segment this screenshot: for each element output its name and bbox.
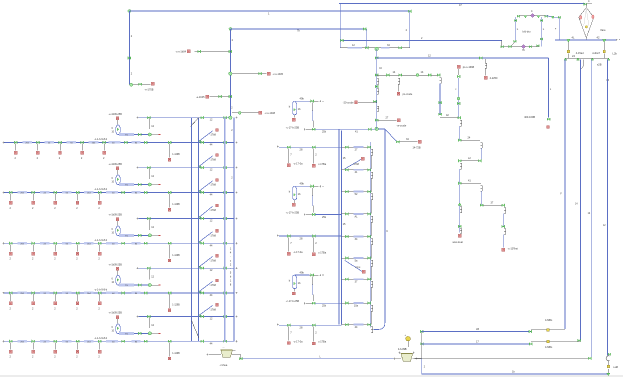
svg-text:4-15ad: 4-15ad <box>576 52 584 55</box>
mid line unit 2 load 1 <box>287 235 290 238</box>
svg-text:25k: 25k <box>322 216 327 219</box>
svg-text:4L: 4L <box>572 35 575 39</box>
svg-text:44: 44 <box>210 294 213 297</box>
ladder rung y=213.9 <box>341 213 370 215</box>
bleed load at y=205.5 <box>216 204 219 207</box>
riser pipe B x=198.5 <box>198 118 200 342</box>
bleed load at y=280.5 <box>216 279 219 282</box>
svg-text:1-129B: 1-129B <box>172 353 180 355</box>
svg-text:5a: 5a <box>355 259 358 262</box>
svg-text:2: 2 <box>59 157 61 160</box>
svg-text:2: 2 <box>103 157 105 160</box>
svg-text:2: 2 <box>421 37 423 40</box>
wire main riser x=230.4 <box>229 29 231 118</box>
svg-text:44: 44 <box>210 342 213 345</box>
floor 1 pump discharge line <box>118 134 150 136</box>
wire zigzag rung y=117.8 <box>440 117 459 119</box>
svg-text:41: 41 <box>355 131 358 134</box>
floor 5 pump discharge line <box>118 332 150 334</box>
svg-text:-c-17-0a: -c-17-0a <box>293 162 303 165</box>
ladder left pipe x=338.9 <box>338 129 340 324</box>
b/d drum top rail <box>518 15 546 17</box>
svg-text:47: 47 <box>459 4 462 7</box>
svg-text:7: 7 <box>290 241 292 245</box>
collector pipe x=421.6 <box>421 332 423 359</box>
svg-text:-17b8: -17b8 <box>353 163 360 166</box>
bleed diagonal at y=155.0 <box>199 156 212 166</box>
node y=117.6 <box>229 116 232 119</box>
mid line unit 1 load 1 <box>287 146 290 149</box>
floor 3 riser-side valves <box>168 242 171 245</box>
svg-text:15: 15 <box>343 156 346 160</box>
b/d drum left pipe <box>515 17 517 42</box>
svg-text:41: 41 <box>355 171 358 174</box>
load c-10Test <box>502 248 505 251</box>
floor 2 riser-side valves <box>168 191 171 194</box>
flare rail y=39.9 <box>555 39 616 41</box>
svg-text:2: 2 <box>315 152 317 156</box>
wire kite stem <box>585 38 587 40</box>
svg-text:7%: 7% <box>125 135 128 137</box>
wire floor 4 main header y=292.9 <box>4 292 234 294</box>
svg-text:cutbaT: cutbaT <box>592 52 600 55</box>
svg-text:52: 52 <box>355 193 358 196</box>
riser top diagonal <box>191 118 199 127</box>
svg-text:44: 44 <box>210 193 213 196</box>
svg-text:37: 37 <box>491 202 494 205</box>
svg-text:2: 2 <box>232 39 234 42</box>
node main riser top <box>229 27 232 30</box>
rail 2 y=58.4 <box>565 57 608 59</box>
floor 1 consumer valves and loads <box>14 141 17 144</box>
bleed diagonal at y=130.0 <box>199 131 212 141</box>
mid loop unit 2 load <box>294 200 296 203</box>
svg-text:12: 12 <box>151 275 154 278</box>
wire floor 5 main header y=341.3 <box>4 340 234 342</box>
basin 2 pilot <box>406 336 411 341</box>
svg-text:6: 6 <box>112 327 114 329</box>
ladder rung y=279.2 <box>341 278 370 280</box>
svg-text:2: 2 <box>455 89 457 91</box>
svg-text:2: 2 <box>54 207 56 210</box>
valve top header end <box>408 10 411 13</box>
mid line unit 3 load 1 <box>287 324 290 327</box>
svg-text:-20-crude: -20-crude <box>343 102 354 105</box>
ladder rung y=236.5 <box>341 236 370 238</box>
svg-text:1: 1 <box>230 280 232 283</box>
window border bottom <box>0 375 623 377</box>
ladder rung y=169.8 <box>341 169 370 171</box>
svg-text:L6: L6 <box>607 80 610 82</box>
svg-text:49b: 49b <box>300 182 305 186</box>
flare kite <box>579 8 594 38</box>
svg-text:12: 12 <box>210 220 213 223</box>
svg-text:-17b8: -17b8 <box>210 159 217 162</box>
svg-text:-: - <box>230 256 231 259</box>
svg-text:1: 1 <box>230 248 232 251</box>
wax column x=459.7 <box>459 185 461 233</box>
floor 1 riser-side valves <box>168 141 171 144</box>
svg-text:7b: 7b <box>522 48 525 52</box>
ladder rung y=147.1 <box>341 146 370 148</box>
svg-text:28: 28 <box>300 236 303 240</box>
svg-text:2: 2 <box>424 366 426 368</box>
wire drop x=409.8 <box>409 11 411 48</box>
svg-text:1-129B: 1-129B <box>172 204 180 206</box>
svg-text:-17b8: -17b8 <box>210 184 217 187</box>
svg-text:-17b8: -17b8 <box>210 134 217 137</box>
svg-text:1-129B: 1-129B <box>172 154 180 156</box>
wire top-most header y=3.5 <box>339 3 585 5</box>
svg-text:14: 14 <box>575 204 578 206</box>
riser bottom diagonal <box>192 321 199 338</box>
svg-text:+: + <box>405 334 407 337</box>
svg-text:L: L <box>543 27 545 31</box>
svg-text:s2B: s2B <box>597 62 602 66</box>
mid line unit 2 load 2 <box>312 235 315 238</box>
rail y=343.9 <box>422 343 530 345</box>
svg-text:1b: 1b <box>298 281 301 285</box>
mid loop unit 3 drop to ladder <box>311 277 313 285</box>
svg-text:wax-treat: wax-treat <box>453 241 464 244</box>
svg-text:c: c <box>230 260 232 263</box>
wire zigzag v1 x=440 <box>439 84 441 115</box>
bleed diagonal at y=280.5 <box>199 281 212 291</box>
svg-text:-c-1-b-9-8-b: -c-1-b-9-8-b <box>94 138 108 141</box>
svg-text:12: 12 <box>428 54 431 57</box>
svg-text:1b: 1b <box>512 370 515 373</box>
b/d drum bottom rail <box>502 46 539 48</box>
wire hot riser x=376.6 <box>376 49 378 129</box>
wire drop x=340.3 <box>339 4 341 48</box>
downcomer x=580.4 <box>582 59 584 66</box>
svg-text:6: 6 <box>112 229 114 231</box>
wire header y=58 to right column <box>377 57 549 59</box>
mid loop unit 3 load <box>294 289 296 292</box>
svg-text:-c-1-b-9-8-b: -c-1-b-9-8-b <box>94 188 108 191</box>
svg-text:4-MBs: 4-MBs <box>545 319 553 322</box>
svg-text:-c-s-1b04: -c-s-1b04 <box>175 50 186 53</box>
svg-text:1: 1 <box>268 11 270 15</box>
rail y=343.9 letdown <box>531 341 580 343</box>
ladder right pipe x=370.7 <box>370 142 372 328</box>
mid line unit 1 load 2 <box>312 146 315 149</box>
svg-text:-c-1-b-9-8-b: -c-1-b-9-8-b <box>94 337 108 340</box>
svg-text:2: 2 <box>98 307 100 310</box>
svg-text:27: 27 <box>355 149 358 152</box>
basin 2 <box>401 354 413 362</box>
svg-text:42: 42 <box>597 35 600 39</box>
svg-text:2: 2 <box>98 207 100 210</box>
svg-text:27: 27 <box>386 116 389 119</box>
svg-text:12: 12 <box>210 269 213 272</box>
svg-text:2: 2 <box>315 330 317 334</box>
svg-text:ps-s-16bB: ps-s-16bB <box>463 66 475 69</box>
bleed load at y=180.0 <box>216 179 219 182</box>
floor 5 tie bar to riser <box>139 316 234 318</box>
downcomer x=607.5 <box>607 60 609 356</box>
valve top header right end <box>584 3 587 6</box>
purple valve top <box>531 14 535 18</box>
downcomer x=564.9 <box>564 60 566 330</box>
branch to load w-crude <box>375 119 378 122</box>
downcomer x=591.2 <box>590 60 592 358</box>
mid line unit 3 inlet <box>277 323 279 325</box>
svg-text:L: L <box>550 89 552 91</box>
svg-text:12: 12 <box>151 125 154 128</box>
svg-text:1b: 1b <box>298 192 301 196</box>
floor 1 tie bar to riser <box>139 117 231 119</box>
svg-text:-e-1b09-25B: -e-1b09-25B <box>109 263 123 266</box>
wire second header drop x=366.8 <box>363 28 366 31</box>
drop to load 4-2250 <box>485 59 487 63</box>
svg-text:10: 10 <box>112 181 115 183</box>
svg-text:-w-crude: -w-crude <box>397 125 407 128</box>
wire collector y=47.8 <box>340 47 410 49</box>
wire floor5 to basin <box>207 353 209 355</box>
svg-text:2: 2 <box>406 29 408 32</box>
riser pipe C x=224.6 (highlighted) <box>224 118 226 342</box>
wire zigzag rung y=205.2 <box>483 204 503 206</box>
bleed diagonal at y=255.7 <box>199 257 212 267</box>
basin outlet valve <box>232 355 241 359</box>
svg-text:-c-17-b-25B: -c-17-b-25B <box>286 211 300 214</box>
branch y=112.8 to load c-s-1b08 <box>232 112 259 114</box>
svg-text:25k: 25k <box>322 305 327 308</box>
diagonal to load 14-72B <box>385 129 396 141</box>
bleed load at y=230.9 <box>216 229 219 232</box>
svg-text:2: 2 <box>32 356 34 359</box>
svg-text:C: C <box>386 230 388 233</box>
svg-text:12: 12 <box>210 169 213 172</box>
svg-text:44: 44 <box>355 326 358 329</box>
svg-text:17: 17 <box>476 341 479 344</box>
svg-text:14-72B: 14-72B <box>413 147 421 150</box>
svg-text:7: 7 <box>290 152 292 156</box>
mid loop unit 1 drop to ladder <box>311 103 313 111</box>
svg-text:-e-1b09-25B: -e-1b09-25B <box>109 214 123 217</box>
blowdown drop x=548.5 <box>548 58 550 118</box>
wire top header y=11 <box>129 10 409 12</box>
wire zigzag rung y=160.8 <box>461 160 479 162</box>
wire floor 2 main header y=192.4 <box>4 191 234 193</box>
svg-text:L2: L2 <box>468 157 471 160</box>
bleed load at y=155.0 <box>216 154 219 157</box>
svg-text:10: 10 <box>112 330 115 332</box>
svg-text:2: 2 <box>76 258 78 261</box>
svg-text:2: 2 <box>15 157 17 160</box>
mid loop unit 1 U-tube <box>293 101 297 115</box>
svg-text:37: 37 <box>355 281 358 284</box>
floor 5 consumer valves and loads <box>9 340 12 343</box>
load 400-169B <box>547 126 550 129</box>
svg-text:2: 2 <box>315 241 317 245</box>
svg-text:b: b <box>289 105 291 109</box>
svg-text:10: 10 <box>112 131 115 133</box>
svg-text:25k: 25k <box>322 131 327 134</box>
svg-text:12: 12 <box>210 318 213 321</box>
svg-text:2: 2 <box>230 264 232 267</box>
mid loop unit 1 inlet line <box>294 100 309 102</box>
svg-text:1b: 1b <box>298 107 301 111</box>
ladder bleed unit 1 <box>345 159 362 169</box>
svg-text:10: 10 <box>112 232 115 234</box>
svg-text:6: 6 <box>112 279 114 281</box>
svg-text:14: 14 <box>393 71 396 74</box>
svg-text:6: 6 <box>112 128 114 130</box>
letdown drops with relief valves <box>567 42 569 50</box>
svg-text:16: 16 <box>379 68 382 70</box>
wire floor 1 main header y=142.4 <box>4 141 234 143</box>
mid loop unit 3 inlet line <box>294 274 309 276</box>
floor 3 consumer valves and loads <box>9 242 12 245</box>
bleed diagonal at y=304.7 <box>199 306 212 316</box>
svg-text:-c-1-b-9-8-b: -c-1-b-9-8-b <box>94 239 108 242</box>
svg-text:2: 2 <box>10 258 12 261</box>
svg-text:2: 2 <box>231 130 233 132</box>
svg-text:4: 4 <box>531 9 533 13</box>
floor 4 riser-side valves <box>168 292 171 295</box>
svg-text:-e-1b05: -e-1b05 <box>196 96 205 99</box>
svg-text:2: 2 <box>37 157 39 160</box>
load e-170B <box>151 82 154 85</box>
svg-text:1-129B: 1-129B <box>172 255 180 257</box>
wire zigzag v5 x=481.2 <box>481 186 483 192</box>
svg-text:-c-17-0a: -c-17-0a <box>293 340 303 343</box>
floor 2 pump discharge line <box>118 184 150 186</box>
branch to load 20-crude <box>358 101 377 103</box>
mid loop unit 1 load <box>294 115 296 118</box>
svg-text:2: 2 <box>131 73 133 76</box>
floor 5 riser-side valves <box>168 340 171 343</box>
svg-text:-17b8: -17b8 <box>210 284 217 287</box>
floor 3 pump discharge line <box>118 234 150 236</box>
mid line unit 2 inlet <box>277 234 279 236</box>
svg-text:2: 2 <box>76 207 78 210</box>
svg-text:4: 4 <box>588 0 590 3</box>
floor 4 consumer valves and loads <box>9 292 12 295</box>
node collector junction <box>375 47 379 51</box>
svg-text:2: 2 <box>231 177 233 179</box>
wire zigzag v3 x=481.2 <box>481 142 483 148</box>
wire drum to flare link <box>546 16 560 40</box>
mid loop unit 2 U-tube <box>293 186 297 200</box>
bleed load at y=304.7 <box>216 303 219 306</box>
riser pipe A x=191.5 <box>191 118 193 342</box>
ladder far pipe x=384.9 <box>374 129 385 330</box>
svg-text:2: 2 <box>98 356 100 359</box>
svg-text:2: 2 <box>98 258 100 261</box>
ladder rung y=303.0 <box>341 302 370 304</box>
rail y=331.5 <box>422 331 531 333</box>
branch y=51.5 to load c-s-1b04 <box>195 51 231 53</box>
load wax-crude column <box>457 65 460 68</box>
floor 3 tie bar to riser <box>139 218 234 220</box>
svg-text:L: L <box>517 27 519 31</box>
svg-text:-17b8: -17b8 <box>210 308 217 311</box>
svg-text:2: 2 <box>10 356 12 359</box>
corner riser with seal loop <box>607 373 610 376</box>
svg-text:-z-thea: -z-thea <box>220 364 228 367</box>
svg-text:34: 34 <box>355 238 358 241</box>
node TL bottom <box>130 83 133 86</box>
svg-text:2: 2 <box>76 307 78 310</box>
svg-text:4-MBs: 4-MBs <box>545 346 553 349</box>
svg-text:34: 34 <box>406 138 409 141</box>
svg-text:-17b8: -17b8 <box>210 209 217 212</box>
svg-text:28: 28 <box>300 148 303 152</box>
svg-text:LB: LB <box>476 328 479 331</box>
mid loop unit 2 inlet line <box>294 185 309 187</box>
ladder rung y=191.6 <box>341 191 370 193</box>
svg-text:2: 2 <box>10 207 12 210</box>
b/d drum right pipe <box>541 17 543 47</box>
purple valve bottom <box>522 45 526 49</box>
svg-text:5: 5 <box>230 272 232 275</box>
svg-text:b: b <box>289 278 291 282</box>
svg-text:42: 42 <box>446 114 449 117</box>
svg-text:AL: AL <box>354 215 358 218</box>
svg-text:-c-17-0a: -c-17-0a <box>293 251 303 254</box>
svg-text:12: 12 <box>151 324 154 327</box>
svg-text:44: 44 <box>210 244 213 247</box>
svg-text:1-129B: 1-129B <box>172 305 180 307</box>
svg-text:F: F <box>555 29 557 31</box>
svg-text:8: 8 <box>230 284 232 287</box>
branch y=73.6 to load c-s-1b05 <box>232 73 267 75</box>
svg-text:41: 41 <box>468 180 471 183</box>
svg-text:7b: 7b <box>297 30 300 33</box>
basin z-thea <box>221 350 233 358</box>
svg-text:c-17Ba: c-17Ba <box>318 163 327 166</box>
zigzag start jog <box>437 74 440 77</box>
svg-text:-c-s-1b05: -c-s-1b05 <box>273 73 284 76</box>
svg-text:10: 10 <box>112 282 115 284</box>
svg-text:400-169B: 400-169B <box>524 116 535 119</box>
wire floor 3 main header y=243.3 <box>4 242 234 244</box>
svg-text:4: 4 <box>230 252 232 255</box>
svg-text:-17b8: -17b8 <box>210 259 217 262</box>
svg-text:-c-1-b-9-8-b: -c-1-b-9-8-b <box>94 289 108 292</box>
ladder left pipe x=341.4 <box>340 131 342 325</box>
svg-text:10a: 10a <box>354 304 359 307</box>
wire rung y=75 <box>377 74 440 76</box>
svg-text:-c-10Test: -c-10Test <box>508 247 519 250</box>
svg-text:2: 2 <box>32 207 34 210</box>
wire node to diagonal <box>378 128 385 130</box>
rail y=331.5 letdown <box>531 329 565 331</box>
wire zigzag v2 x=459.7 <box>458 116 461 119</box>
svg-text:....: .... <box>222 346 225 349</box>
svg-text:cmu: cmu <box>356 266 361 269</box>
svg-text:2: 2 <box>54 356 56 359</box>
load wax-treat <box>458 234 461 237</box>
ladder top node <box>375 127 378 130</box>
drop to load ps-crude <box>398 78 400 84</box>
wire zigzag v6 x=503.3 <box>504 207 506 213</box>
svg-text:12: 12 <box>210 119 213 122</box>
svg-text:2: 2 <box>231 108 233 110</box>
svg-text:ps-crude: ps-crude <box>403 93 413 96</box>
svg-text:b: b <box>289 190 291 194</box>
svg-text:c-17Ba: c-17Ba <box>318 341 327 344</box>
floor 2 consumer valves and loads <box>9 191 12 194</box>
svg-text:7: 7 <box>290 330 292 334</box>
bleed diagonal at y=205.5 <box>199 206 212 217</box>
svg-text:7%: 7% <box>125 285 128 287</box>
svg-text:-c-17-b-25B: -c-17-b-25B <box>286 126 300 129</box>
svg-text:b: b <box>230 276 232 279</box>
